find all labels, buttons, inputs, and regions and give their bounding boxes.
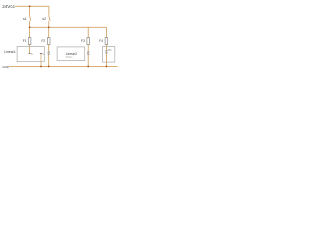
svg-text:F4: F4 bbox=[99, 39, 103, 43]
svg-text:24Vcc: 24Vcc bbox=[66, 56, 73, 59]
svg-text:F3: F3 bbox=[81, 39, 85, 43]
svg-text:F2: F2 bbox=[41, 39, 45, 43]
svg-text:F1: F1 bbox=[23, 39, 27, 43]
svg-text:GND: GND bbox=[2, 65, 8, 69]
svg-text:s1: s1 bbox=[23, 17, 27, 21]
svg-text:Linear1: Linear1 bbox=[4, 50, 16, 54]
svg-text:24v+: 24v+ bbox=[108, 50, 114, 52]
svg-text:2-: 2- bbox=[42, 53, 44, 55]
svg-text:1+: 1+ bbox=[31, 53, 34, 55]
svg-text:24Vcc: 24Vcc bbox=[2, 4, 15, 9]
svg-text:s2: s2 bbox=[42, 17, 46, 21]
